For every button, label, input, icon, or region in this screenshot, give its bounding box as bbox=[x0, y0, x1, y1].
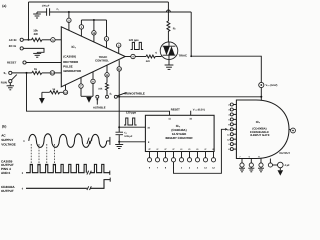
pin 1 (top edge) bbox=[79, 25, 83, 29]
pin 8 (bottom edge) bbox=[91, 79, 95, 83]
pin 11 (bottom edge, 10k) bbox=[105, 73, 109, 77]
wire neutral to ground bbox=[23, 48, 44, 52]
svg-text:2¹: 2¹ bbox=[157, 148, 159, 151]
svg-text:PULSE: PULSE bbox=[63, 64, 73, 68]
wire to pin 14 bbox=[42, 72, 50, 74]
svg-text:IC₂: IC₂ bbox=[176, 124, 181, 128]
svg-text:2⁵: 2⁵ bbox=[188, 148, 190, 151]
pin 10 (bottom edge near tip) bbox=[117, 67, 121, 71]
gate inputs bbox=[227, 103, 236, 151]
pin 2^4 bbox=[181, 152, 183, 158]
svg-text:MONOSTABLE: MONOSTABLE bbox=[125, 92, 145, 96]
wire junction down to pin 2 bbox=[68, 12, 70, 18]
svg-text:2²: 2² bbox=[165, 148, 167, 151]
wire astable node vertical bbox=[118, 71, 120, 127]
pin 2^8 bbox=[213, 152, 215, 158]
wire clock to counter pin 10 bbox=[119, 126, 145, 128]
pin 2^1 bbox=[157, 152, 159, 158]
wire top rail (AC line) bbox=[29, 1, 169, 3]
ASTABLE label + arrow bbox=[96, 100, 98, 105]
svg-text:VOLTAGE: VOLTAGE bbox=[1, 142, 16, 146]
svg-text:4 µF: 4 µF bbox=[285, 164, 291, 167]
svg-text:SUPPLY: SUPPLY bbox=[1, 138, 14, 142]
svg-text:RUN: RUN bbox=[1, 80, 7, 84]
wire monostable to VDD rail bbox=[117, 96, 261, 98]
pin 2^0 bbox=[149, 152, 151, 158]
svg-text:RESET: RESET bbox=[7, 61, 17, 65]
svg-text:TRIAC: TRIAC bbox=[179, 54, 188, 58]
break marks sine bbox=[87, 138, 92, 144]
wire C1 to VDD rail bbox=[50, 11, 192, 13]
wire S1 to counter reset bbox=[27, 73, 170, 115]
counter IC2 CD4040A bbox=[145, 115, 214, 151]
wire to counter VSS pin 8 bbox=[119, 141, 145, 143]
svg-text:OUTPUT: OUTPUT bbox=[279, 152, 290, 155]
load resistor RL bbox=[167, 2, 169, 21]
pin 12 (bottom edge) bbox=[63, 90, 67, 94]
svg-text:S₂: S₂ bbox=[110, 93, 113, 96]
triac bbox=[160, 42, 178, 60]
wire pin to output terminal cap bbox=[273, 164, 278, 166]
node pin2 junction bbox=[68, 11, 70, 13]
ground (C2) bbox=[115, 142, 123, 149]
dashed timing lines bbox=[31, 144, 54, 166]
pin 16 stub + label bbox=[190, 111, 192, 116]
node tie bbox=[93, 19, 95, 21]
svg-text:RESET: RESET bbox=[171, 109, 180, 112]
svg-text:2⁷: 2⁷ bbox=[204, 148, 206, 151]
gate IC3 CD4068A bbox=[236, 100, 289, 159]
gate output terminal bbox=[289, 128, 291, 131]
svg-text:C₁: C₁ bbox=[57, 8, 60, 11]
svg-text:(a): (a) bbox=[2, 4, 6, 8]
svg-text:120 pps: 120 pps bbox=[126, 112, 137, 115]
ground (filter cap) bbox=[33, 12, 41, 18]
pin 7 (bottom edge) bbox=[79, 84, 83, 88]
grounds under gate pins bbox=[239, 167, 245, 172]
svg-text:100 µF: 100 µF bbox=[42, 4, 50, 7]
wire pin group tie bbox=[81, 19, 106, 21]
pin 2^6 bbox=[197, 152, 199, 158]
capacitor C2 astable bbox=[118, 126, 120, 128]
pin 3 (top edge near tip) bbox=[117, 43, 121, 47]
svg-text:RECTIFIER: RECTIFIER bbox=[63, 60, 78, 64]
wire pins 7-8 common bbox=[81, 95, 93, 97]
svg-text:G: G bbox=[155, 52, 157, 55]
svg-text:OUTPUT: OUTPUT bbox=[1, 189, 14, 193]
svg-text:0.05 µF: 0.05 µF bbox=[124, 135, 133, 138]
pin 2^5 bbox=[189, 152, 191, 158]
svg-text:V₃₃ (6.5V): V₃₃ (6.5V) bbox=[266, 84, 278, 87]
svg-text:120 pps: 120 pps bbox=[129, 39, 140, 42]
wire AC up to top rail bbox=[28, 2, 30, 40]
svg-text:AND 6: AND 6 bbox=[1, 171, 11, 175]
wire hop (VDD rail crosses AC drop) bbox=[166, 10, 170, 12]
VDD rail down + right bbox=[191, 12, 261, 100]
resistor 10k 2W bbox=[32, 38, 43, 41]
svg-text:60 Hz: 60 Hz bbox=[9, 44, 17, 48]
pin 9 (top edge) bbox=[104, 37, 108, 41]
svg-text:CONTROL: CONTROL bbox=[95, 59, 109, 63]
svg-text:IC₁: IC₁ bbox=[72, 45, 77, 49]
svg-text:ASTABLE: ASTABLE bbox=[93, 107, 106, 110]
pin 13 (top edge) bbox=[92, 31, 96, 35]
svg-text:GENERATOR: GENERATOR bbox=[63, 69, 81, 73]
svg-text:IC₃: IC₃ bbox=[256, 120, 261, 124]
pin 2^2 bbox=[165, 152, 167, 158]
terminal AC IN bbox=[20, 38, 23, 41]
node S1 junction bbox=[26, 72, 28, 74]
ground (neutral) bbox=[33, 52, 41, 57]
gate bottom pins bbox=[239, 155, 272, 167]
pin 2^3 bbox=[173, 152, 175, 158]
svg-text:220: 220 bbox=[146, 60, 151, 63]
resistor gate 220 bbox=[146, 55, 155, 58]
terminal AC neutral bbox=[20, 47, 23, 50]
wire ground to capacitor C1 bbox=[37, 11, 47, 13]
terminal VDD bbox=[259, 82, 264, 87]
node monostable junction bbox=[118, 96, 120, 98]
svg-text:(b): (b) bbox=[2, 125, 6, 129]
chassis ground arrow (pins 7-8) bbox=[86, 97, 92, 103]
wire reset to IC1 bbox=[26, 62, 61, 64]
pin 2^7 bbox=[205, 152, 207, 158]
terminal RESET bbox=[23, 61, 26, 64]
break marks step bbox=[87, 186, 91, 190]
svg-text:AC IN: AC IN bbox=[9, 38, 17, 42]
svg-text:2W: 2W bbox=[34, 32, 39, 36]
wire AC to resistor bbox=[23, 39, 31, 41]
resistor 1k bbox=[32, 71, 42, 74]
pin 2 bbox=[67, 18, 71, 22]
svg-text:2⁴: 2⁴ bbox=[180, 148, 182, 151]
wire counter output to gate input (select) bbox=[174, 129, 226, 173]
svg-text:10k: 10k bbox=[98, 87, 103, 90]
resistor 10k vertical bbox=[106, 83, 109, 96]
counter output stubs 2^0..2^8 bbox=[147, 148, 215, 170]
node AC junction bbox=[28, 39, 30, 41]
triac MT1 to ground bbox=[168, 60, 170, 65]
wire S1 to 1k resistor bbox=[12, 72, 32, 74]
switch S2 bbox=[106, 95, 109, 98]
pin 5 (IC1 left edge) bbox=[51, 38, 55, 42]
svg-text:2⁰: 2⁰ bbox=[148, 148, 150, 151]
wire resistor to pin 5 bbox=[42, 39, 51, 41]
svg-text:(CA3059): (CA3059) bbox=[63, 54, 76, 58]
break marks pulses bbox=[87, 171, 91, 175]
op-amp triangle IC1 CA3059 bbox=[61, 27, 125, 87]
chassis ground arrow (5k) bbox=[41, 92, 43, 98]
chassis arrow (output cap) bbox=[279, 168, 281, 170]
capacitor C1 100uF bbox=[47, 8, 50, 15]
output pin 4 bbox=[125, 56, 131, 58]
svg-text:2⁶: 2⁶ bbox=[196, 148, 198, 151]
svg-text:2⁸: 2⁸ bbox=[212, 148, 214, 151]
svg-text:1k: 1k bbox=[34, 67, 38, 71]
resistor 5k bbox=[50, 91, 60, 94]
ground (S1) bbox=[7, 83, 14, 90]
pin 14 bbox=[50, 71, 54, 75]
svg-text:BINARY COUNTER: BINARY COUNTER bbox=[165, 136, 193, 140]
svg-text:8-INPUT GATE: 8-INPUT GATE bbox=[250, 133, 269, 137]
svg-text:2³: 2³ bbox=[173, 148, 175, 151]
node C2 bottom bbox=[118, 141, 120, 143]
svg-text:AC: AC bbox=[1, 134, 6, 138]
svg-text:V₃₃ (6.5V): V₃₃ (6.5V) bbox=[193, 109, 205, 112]
